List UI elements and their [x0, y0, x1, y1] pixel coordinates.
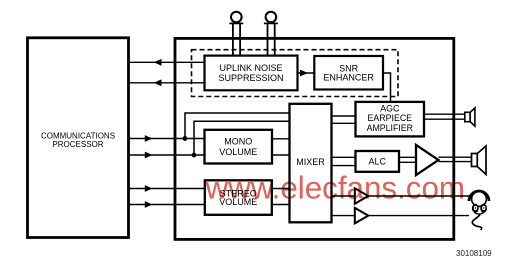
junction node on mono in 1 — [183, 136, 188, 141]
wire mixer to headphone amp R — [332, 215, 355, 217]
svg-text:30108109: 30108109 — [456, 249, 492, 258]
communications processor box — [28, 38, 129, 238]
headphone amp R (triangle) — [355, 208, 369, 224]
svg-text:ALC: ALC — [368, 157, 386, 167]
earpiece speaker icon — [465, 108, 475, 126]
svg-text:VOLUME: VOLUME — [219, 147, 257, 157]
svg-text:UPLINK NOISE: UPLINK NOISE — [219, 63, 282, 73]
mixer block — [290, 104, 332, 223]
svg-text:EARPIECE: EARPIECE — [368, 113, 413, 123]
wire uplink out 1 to processor — [129, 59, 205, 66]
headphone listener icon — [469, 191, 489, 230]
wire mono out 1 to mixer — [272, 138, 290, 140]
mono volume block — [205, 130, 273, 164]
svg-text:MONO: MONO — [224, 137, 252, 147]
svg-text:ENHANCER: ENHANCER — [323, 72, 374, 82]
wire mixer to headphone amp L — [332, 195, 355, 197]
wire mixer to alc (pair) — [332, 157, 356, 165]
wire mono in 1 — [129, 135, 205, 142]
wire alc to speaker amp (pair) — [399, 157, 416, 162]
svg-text:SUPPRESSION: SUPPRESSION — [218, 73, 283, 83]
wire agc to earpiece speaker (pair) — [424, 114, 465, 119]
bypass wire 1 to mixer — [185, 113, 290, 139]
wire amp L to headphone — [368, 195, 471, 197]
svg-text:PROCESSOR: PROCESSOR — [52, 140, 103, 149]
wire amp R to headphone — [368, 215, 469, 217]
dashed noise-suppression block — [192, 50, 399, 97]
svg-text:www.elecfans.com: www.elecfans.com — [204, 170, 465, 205]
wire uplink to snr — [298, 70, 315, 77]
svg-text:COMMUNICATIONS: COMMUNICATIONS — [41, 131, 115, 140]
wire uplink out 2 to processor — [129, 79, 205, 86]
wire mono in 2 — [129, 152, 205, 159]
loudspeaker icon — [472, 146, 487, 174]
codec outer box — [175, 38, 454, 239]
wire mono out 2 to mixer — [272, 154, 290, 156]
microphone MIC1 — [229, 12, 243, 56]
wire stereo in 1 — [129, 185, 205, 192]
wire snr to agc — [383, 73, 391, 102]
headphone amp L (triangle) — [355, 188, 369, 204]
bypass wire 2 to mixer — [194, 121, 290, 155]
wire stereo out 1 to mixer — [272, 188, 290, 190]
alc block — [356, 151, 400, 172]
uplink noise suppression block — [205, 56, 298, 91]
agc earpiece amplifier block — [356, 102, 425, 136]
speaker amplifier (triangle) — [416, 145, 439, 175]
microphone MIC2 — [264, 12, 278, 56]
junction node on mono in 2 — [192, 153, 197, 158]
wire stereo in 2 — [129, 201, 205, 208]
wire amp to loudspeaker (pair) — [439, 157, 472, 161]
wire mixer to agc (differential pair) — [332, 116, 356, 123]
svg-text:MIXER: MIXER — [296, 157, 325, 167]
wire stereo out 2 to mixer — [272, 204, 290, 206]
snr enhancer block — [314, 56, 383, 90]
svg-text:AMPLIFIER: AMPLIFIER — [367, 123, 413, 133]
stereo volume block — [205, 180, 272, 215]
svg-text:AGC: AGC — [380, 104, 400, 114]
